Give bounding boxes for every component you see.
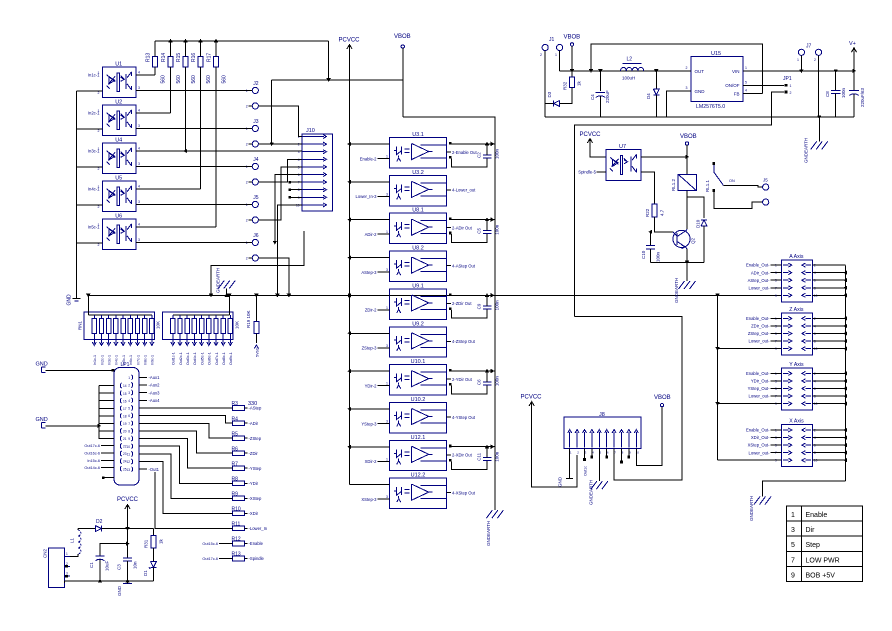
connector LP1 (DB25) [114, 368, 139, 485]
svg-text:U7: U7 [619, 144, 626, 150]
node U8.1 pad pin (top) [449, 218, 452, 221]
svg-text:In3c-1: In3c-1 [108, 355, 112, 365]
svg-text:Lower_In-3: Lower_In-3 [356, 194, 378, 199]
svg-text:In4c-1: In4c-1 [115, 355, 119, 365]
node ADir (output of R4) [245, 422, 248, 424]
buffer U8.2 [390, 251, 447, 281]
wire R22 to Q2 base [654, 217, 673, 232]
svg-text:3: 3 [138, 200, 140, 204]
svg-text:R3: R3 [232, 401, 239, 407]
svg-text:22: 22 [123, 445, 127, 449]
wire Z Axis row5 to common bus [718, 348, 782, 350]
ground GNDEARTH (cap bus) [486, 510, 492, 518]
optocoupler U7 [606, 149, 641, 180]
svg-text:13: 13 [126, 468, 130, 472]
node Lower_out- (Z Axis input) [771, 340, 782, 342]
ground GNDEARTH (power) [818, 117, 820, 141]
node YDir (output of R8) [245, 482, 248, 484]
svg-text:C8: C8 [825, 91, 830, 97]
wire Z Axis row 4 to right bus [812, 340, 845, 342]
svg-text:R11: R11 [232, 522, 241, 528]
svg-text:2: 2 [686, 66, 688, 70]
node ZStep (output of R5) [245, 437, 248, 439]
svg-text:-Aux2: -Aux2 [149, 383, 161, 388]
wire LP1 pin7 to R5 [139, 423, 233, 438]
svg-text:U8.2: U8.2 [412, 246, 424, 252]
node J10 pin9 test pad [288, 196, 291, 199]
svg-text:2: 2 [98, 167, 100, 171]
svg-text:Out1c: Out1c [584, 466, 588, 476]
svg-text:J5: J5 [763, 178, 768, 183]
svg-text:LOW PWR: LOW PWR [806, 557, 840, 564]
node Aux4 (LP1 pin 4) [139, 399, 147, 401]
svg-text:R19 10K: R19 10K [246, 310, 251, 328]
node Spindle input U7 pin2 [597, 171, 607, 173]
wire R19 bottom lead [255, 333, 257, 343]
svg-text:2: 2 [128, 384, 130, 388]
svg-text:C3: C3 [117, 564, 122, 570]
svg-text:D1: D1 [143, 570, 148, 576]
svg-text:2-Enable Out: 2-Enable Out [452, 150, 478, 155]
wire U1 pin2 to ground bus [76, 90, 102, 92]
svg-text:RL1.2: RL1.2 [671, 178, 676, 191]
wire U3.1 power pin to PCVCC bus [350, 143, 390, 145]
svg-text:In7c-1: In7c-1 [136, 355, 140, 365]
connector X Axis row 5 pins 9/10 [783, 459, 789, 461]
node XStep_Out- (X Axis input) [771, 444, 782, 446]
svg-text:3: 3 [386, 268, 388, 272]
wire A Axis row 4 to right bus [812, 287, 845, 289]
wire X Axis row 4 to right bus [812, 452, 845, 454]
svg-text:220uF/63: 220uF/63 [860, 87, 865, 107]
wire Y Axis row 1 to right bus [812, 372, 845, 374]
wire LP1 pin9 to R7 [139, 439, 233, 469]
svg-text:Enable: Enable [806, 512, 828, 519]
connector J5 pin2 [252, 217, 258, 223]
svg-text:5: 5 [745, 81, 747, 85]
svg-text:Enable_Out-: Enable_Out- [746, 371, 770, 376]
node U9.2 output 4-ZStep Out [447, 340, 451, 342]
wire U7 pin3 down to R22 [641, 172, 654, 204]
svg-text:VBOB: VBOB [564, 35, 581, 41]
node J8 pin8 pad [621, 449, 623, 462]
connector A Axis header [781, 260, 812, 302]
wire J6 pin2 to ground rail [258, 258, 289, 295]
connector LP1 left pin 24 [120, 459, 121, 464]
svg-text:In15c-6: In15c-6 [87, 459, 100, 463]
connector J10 pin 8 [302, 189, 324, 191]
svg-text:2: 2 [98, 129, 100, 133]
svg-text:100uH: 100uH [622, 76, 635, 81]
svg-text:9: 9 [775, 294, 777, 298]
connector LP1 left pin 21 [120, 436, 121, 441]
svg-text:C11: C11 [477, 452, 482, 460]
wire X Axis row 5 to right bus [812, 459, 845, 461]
node J8 pin4 pad [591, 449, 593, 457]
wire U8.1 pad to cap bus [452, 219, 495, 221]
svg-text:ON: ON [729, 179, 735, 183]
wire U6 pin2 to ground bus [76, 242, 102, 244]
node U8.1 output 2-ADir Out [447, 227, 451, 229]
svg-text:R16: R16 [191, 53, 197, 62]
connector LP1 left pin 23 [120, 451, 121, 456]
connector J10 pin 4 [302, 158, 324, 160]
resistor R3 330 [233, 406, 245, 411]
resistor RN1.3 [108, 315, 110, 319]
resistor RN2.5 [201, 315, 203, 319]
svg-text:4-Lower_out: 4-Lower_out [452, 188, 476, 193]
resistor RN1.5 [122, 315, 124, 319]
connector LP1 left pin 17 [120, 406, 121, 411]
svg-text:1: 1 [386, 382, 388, 386]
svg-text:VBOB: VBOB [394, 34, 411, 40]
svg-text:LM2576T5.0: LM2576T5.0 [696, 104, 725, 110]
svg-text:10uF: 10uF [105, 560, 110, 571]
wire A Axis row 3 to right bus [812, 279, 845, 281]
svg-text:Lower_out-: Lower_out- [749, 450, 771, 455]
svg-text:3: 3 [138, 162, 140, 166]
connector LP1 right pin 3 [132, 390, 133, 395]
resistor RN1.2 [101, 315, 103, 319]
node Out16c-6 (LP1 left label) [101, 452, 114, 454]
svg-text:9: 9 [791, 572, 795, 579]
wire J10 pin10 to ground rail [277, 205, 302, 295]
ground GNDEARTH (J8) [591, 481, 597, 489]
svg-text:GNDEARTH: GNDEARTH [749, 496, 754, 521]
resistor R16 560 [198, 57, 203, 68]
svg-text:-Aux3: -Aux3 [149, 390, 161, 395]
diode D10 (flyback) [687, 197, 704, 218]
wire U15 FB pin to loop [743, 92, 763, 94]
svg-text:R7: R7 [232, 461, 239, 467]
diode D4 (catch) [655, 71, 657, 89]
wire U7 pin4 to VBOB [641, 156, 687, 158]
resistor RN2.4 [193, 315, 195, 319]
wire Y Axis row 3 to right bus [812, 388, 845, 390]
node U9.1 output 2-ZDir Out [447, 302, 451, 304]
node U8.2 output 4-AStep Out [447, 265, 451, 267]
wire Y Axis row5 to common bus [718, 403, 782, 405]
svg-text:GNDEARTH: GNDEARTH [674, 278, 679, 303]
connector J10 pin 6 [302, 174, 324, 176]
svg-text:GNDEARTH: GNDEARTH [589, 480, 594, 505]
svg-text:R15: R15 [176, 53, 182, 62]
connector LP1 right pin 5 [132, 405, 133, 410]
svg-text:In9c-1: In9c-1 [151, 355, 155, 365]
wire U12.1 power pin to PCVCC bus [350, 446, 390, 448]
svg-text:-Aux4: -Aux4 [149, 398, 161, 403]
svg-text:Spindle-5: Spindle-5 [578, 170, 596, 175]
wire U3.2 power pin to PCVCC bus [350, 181, 390, 183]
svg-text:L2: L2 [627, 57, 633, 63]
svg-text:J2: J2 [253, 81, 258, 87]
wire RN2.6 output pin [208, 333, 210, 343]
node U12.2 output 4-XStep Out [447, 492, 451, 494]
svg-text:VIN: VIN [732, 69, 740, 74]
node AStep (output of R3) [245, 407, 248, 409]
node U3.2 input Lower_In-3 [378, 195, 390, 197]
wire Z Axis row 1 to right bus [812, 317, 845, 319]
svg-text:1: 1 [98, 109, 100, 113]
svg-text:CN2: CN2 [43, 549, 48, 558]
svg-text:Out1c-1: Out1c-1 [172, 352, 176, 365]
svg-text:R14: R14 [161, 53, 167, 62]
wire D2 to PCVCC node [101, 528, 153, 530]
wire JP1 pin2 to spindle feed (long vertical) [575, 92, 784, 317]
svg-text:100n: 100n [495, 451, 500, 462]
svg-text:GND: GND [36, 361, 48, 367]
wire R32 bottom to D3 [560, 88, 572, 104]
svg-text:L1: L1 [70, 537, 75, 543]
svg-text:-ZStep: -ZStep [249, 436, 262, 441]
node U12.1 output 2-XDir Out [447, 454, 451, 456]
svg-text:1: 1 [386, 457, 388, 461]
wire C1 tap [100, 544, 128, 556]
svg-text:Out17c-6: Out17c-6 [202, 557, 218, 561]
connector Z Axis row 1 pins 1/2 [783, 317, 789, 319]
svg-text:GNDEARTH: GNDEARTH [216, 268, 221, 293]
svg-text:2: 2 [814, 58, 816, 62]
node LP1 shield pad [102, 476, 105, 479]
diode D2 [95, 526, 101, 532]
node U10.1 input YDir-2 [378, 385, 390, 387]
node U10.1 pad pin (top) [449, 369, 452, 372]
wire R13 top lead [154, 41, 156, 57]
wire PCVCC bus vertical [349, 50, 351, 485]
resistor RN1.1 [93, 315, 95, 319]
svg-text:2-XDir Out: 2-XDir Out [452, 453, 473, 458]
svg-text:4: 4 [138, 70, 140, 74]
resistor R9 330 [233, 496, 245, 501]
svg-text:V+: V+ [849, 41, 856, 47]
wire LP1 pin6 to R4 [139, 416, 233, 423]
wire J6 pin1 to J10 pin6 [275, 175, 302, 243]
wire RN2.2 output pin [179, 333, 181, 343]
svg-text:6: 6 [128, 414, 130, 418]
svg-text:Out4c-1: Out4c-1 [193, 352, 197, 365]
svg-text:17: 17 [123, 407, 127, 411]
relay coil RL1.2 [678, 174, 696, 190]
wire U10.1 pad to cap bus [452, 370, 495, 372]
connector J7 pin2 [816, 49, 822, 55]
connector LP1 right pin 2 [132, 382, 133, 387]
resistor network RN1 10K [84, 312, 155, 340]
svg-text:1: 1 [745, 66, 747, 70]
wire LP1 pin10 to R8 [139, 446, 233, 483]
svg-text:1: 1 [98, 223, 100, 227]
node Enable (output of R12) [245, 542, 248, 544]
wire U1 pin3 to J2 pin1 [136, 89, 248, 91]
connector LP1 left pin 19 [120, 421, 121, 426]
wire RN2.8 output pin [222, 333, 224, 343]
connector A Axis row 5 pins 9/10 [783, 294, 789, 296]
wire U8.1 power pin to PCVCC bus [350, 219, 390, 221]
svg-text:R22: R22 [645, 208, 650, 217]
connector J8 pin 3 [584, 432, 586, 448]
wire U4 pin1 row extension to J10 pin3 [186, 150, 302, 152]
wire U8.1 bottom pad loop to capacitor [452, 234, 488, 243]
wire RN1.7 output pin [137, 333, 139, 343]
wire R15 top lead [185, 41, 187, 57]
node U9.1 input ZDir-2 [378, 309, 390, 311]
svg-text:U2: U2 [115, 99, 122, 105]
connector J4 pin2 [252, 179, 258, 185]
svg-text:560: 560 [176, 75, 182, 84]
connector Y Axis row 3 pins 5/6 [783, 388, 789, 390]
svg-text:R5: R5 [232, 431, 239, 437]
node Enable_Out- (Y Axis input) [771, 372, 782, 374]
connector A Axis row 1 pins 1/2 [783, 264, 789, 266]
node YStep_Out- (Y Axis input) [771, 388, 782, 390]
svg-text:Z Axis: Z Axis [789, 307, 804, 313]
wire R13 bottom lead to U1 pin1 [154, 67, 156, 75]
svg-text:Step: Step [806, 542, 821, 549]
svg-text:In2c-1: In2c-1 [100, 355, 104, 365]
node U3.1 output 2-Enable Out [447, 151, 451, 153]
connector J8 [564, 417, 641, 448]
connector J10 pin 5 [302, 166, 324, 168]
wire U9.1 power pin to PCVCC bus [350, 294, 390, 296]
wire VBOB row drop to J3 pin2 net [271, 80, 273, 144]
node U8.1 pad pin (bottom) [449, 232, 452, 235]
wire R17 top lead [215, 41, 217, 57]
svg-text:2: 2 [540, 53, 542, 57]
connector LP1 left pin 25 [120, 466, 121, 471]
wire LP1 pin 19 to ground bus [99, 422, 114, 424]
wire J8 pin5 to earth [598, 449, 600, 482]
svg-text:J7: J7 [806, 44, 812, 50]
resistor RN1.8 [144, 315, 146, 319]
wire RN1.5 output pin [122, 333, 124, 343]
connector J9 pin2 [763, 199, 769, 205]
wire J3 pin2 to J10 pin2 [258, 143, 302, 145]
svg-text:Out6c-1: Out6c-1 [208, 352, 212, 365]
capacitor C4 220uF [599, 71, 601, 91]
svg-text:11: 11 [127, 453, 131, 457]
wire LP1 pin 17 to ground bus [99, 407, 114, 409]
wire Y Axis row 5 to right bus [812, 403, 845, 405]
svg-text:XStep-3: XStep-3 [361, 497, 377, 502]
connector J5 pin1 [252, 201, 258, 207]
wire Z Axis row 5 to right bus [812, 348, 845, 350]
svg-text:XStep_Out-: XStep_Out- [748, 443, 770, 448]
node J10 pin8 test pad [288, 188, 291, 191]
svg-text:1: 1 [790, 84, 792, 88]
node Out17c-6 (input to R13) [219, 558, 233, 560]
svg-text:R10: R10 [232, 507, 241, 513]
connector Z Axis row 4 pins 7/8 [783, 340, 789, 342]
diode D1 zener [152, 548, 154, 562]
svg-text:2: 2 [246, 218, 248, 222]
node ZDir (output of R6) [245, 452, 248, 454]
svg-text:14: 14 [123, 384, 127, 388]
svg-text:JP1: JP1 [783, 76, 792, 82]
capacitor C10 100n [650, 232, 652, 246]
svg-text:GND: GND [36, 417, 48, 423]
svg-text:18: 18 [123, 414, 127, 418]
connector J8 pin 8 [621, 432, 623, 448]
svg-text:YStep-3: YStep-3 [361, 421, 377, 426]
buffer U12.2 [390, 478, 447, 508]
connector J3 pin1 [252, 125, 258, 131]
svg-text:560: 560 [222, 75, 228, 84]
wire VBOB to relay coil [686, 145, 688, 174]
svg-text:C2: C2 [477, 152, 482, 158]
capacitor C9 100n [483, 305, 492, 307]
wire RL1.1 common to J9 pin1 [724, 186, 763, 188]
connector CN2 [49, 548, 65, 588]
svg-text:3: 3 [386, 192, 388, 196]
svg-text:J6: J6 [253, 233, 258, 239]
node U10.2 input YStep-3 [378, 422, 390, 424]
svg-text:2: 2 [98, 243, 100, 247]
wire U3.1 pad to cap bus [452, 143, 495, 145]
svg-text:4-XStep Out: 4-XStep Out [452, 490, 476, 495]
wire RN1.9 output pin [151, 333, 153, 343]
wire U8.2 power pin to PCVCC bus [350, 257, 390, 259]
optocoupler U6 [103, 219, 136, 250]
svg-text:1: 1 [98, 147, 100, 151]
svg-text:9: 9 [128, 437, 130, 441]
svg-text:1: 1 [128, 376, 130, 380]
svg-text:R8: R8 [232, 476, 239, 482]
wire RN2.5 output pin [201, 333, 203, 343]
svg-text:In8c-1: In8c-1 [144, 355, 148, 365]
wire CN2 pin1 to L1 [70, 554, 78, 556]
wire J1 pin1 down to D3 row [544, 51, 546, 117]
connector X Axis row 3 pins 5/6 [783, 444, 789, 446]
resistor R4 330 [233, 421, 245, 426]
optocoupler U2 [103, 105, 136, 136]
svg-text:ZDir_Out-: ZDir_Out- [751, 324, 770, 329]
svg-text:Out5c-1: Out5c-1 [200, 352, 204, 365]
svg-text:3: 3 [138, 86, 140, 90]
node Lower_out- (X Axis input) [771, 452, 782, 454]
svg-text:-ZDir: -ZDir [249, 451, 259, 456]
svg-text:7: 7 [128, 422, 130, 426]
svg-text:C9: C9 [477, 303, 482, 309]
wire U15 ON/OFF pin to JP1 [743, 84, 784, 86]
svg-text:Out9c-1: Out9c-1 [229, 352, 233, 365]
svg-text:Q2: Q2 [691, 237, 696, 244]
resistor RN2.8 [222, 315, 224, 319]
svg-text:100n: 100n [495, 300, 500, 311]
svg-text:U12.1: U12.1 [411, 435, 426, 441]
wire LP1 pin 15 to ground bus [99, 392, 114, 394]
svg-text:2-ZDir Out: 2-ZDir Out [452, 301, 472, 306]
wire axis right collector bus [845, 265, 847, 481]
svg-text:YDir_Out-: YDir_Out- [751, 379, 770, 384]
connector LP1 right pin 13 [132, 467, 133, 472]
wire VBOB to J8 pin10 [636, 407, 662, 466]
wire LP1 pin8 to R6 [139, 431, 233, 453]
wire RN1.4 output pin [115, 333, 117, 343]
svg-text:YStep_Out-: YStep_Out- [748, 386, 770, 391]
svg-text:D3: D3 [547, 91, 552, 97]
node In15c-6 (LP1 left label) [101, 459, 114, 461]
svg-text:19: 19 [123, 422, 127, 426]
ground GND symbol [73, 297, 81, 299]
connector J10 pin 7 [302, 181, 324, 183]
node Lower_In (output of R11) [245, 527, 248, 529]
resistor R22 4.7 [652, 204, 657, 217]
wire U15 VIN pin to V+ node [743, 70, 854, 72]
svg-text:U10.2: U10.2 [411, 397, 426, 403]
node Spindle (output of R13) [245, 558, 248, 560]
connector J10 pin 10 [302, 204, 324, 206]
svg-text:4: 4 [138, 147, 140, 151]
connector LP1 right pin 9 [132, 436, 133, 441]
